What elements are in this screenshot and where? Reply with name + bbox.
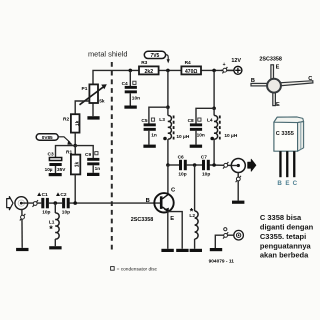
inductor L3	[159, 107, 190, 140]
wire C5 branch	[149, 107, 168, 123]
capacitor C4	[122, 70, 141, 105]
wire node to C9	[75, 146, 93, 158]
wire connector to C1	[21, 202, 41, 204]
solder pin K3	[223, 228, 228, 239]
junction R3/R4 node	[166, 69, 170, 73]
wire R3 to R4	[159, 69, 182, 71]
wire C7 to output connector	[210, 164, 232, 166]
wire K3 to ground	[215, 235, 234, 248]
svg-text:E: E	[170, 216, 174, 222]
ground C5	[143, 145, 155, 148]
solder pin output	[223, 162, 228, 169]
wire collector	[167, 165, 169, 195]
wire output line	[168, 164, 179, 166]
svg-text:+: +	[223, 62, 226, 68]
wire node to C3	[56, 146, 76, 158]
output arrow	[248, 159, 256, 171]
wire C6 to C7	[187, 164, 202, 166]
resistor R1	[66, 150, 81, 175]
capacitor C9	[85, 152, 100, 173]
svg-text:1n: 1n	[151, 132, 157, 138]
svg-text:10p: 10p	[178, 172, 186, 178]
junction L2 node	[193, 163, 197, 167]
wire output shell down	[237, 173, 239, 201]
svg-text:akan berbeda: akan berbeda	[260, 251, 309, 260]
svg-text:C5: C5	[141, 118, 147, 124]
note text block	[260, 213, 314, 260]
svg-text:10 µH: 10 µH	[224, 133, 237, 139]
svg-text:10p: 10p	[202, 172, 210, 178]
capacitor C5	[141, 118, 156, 145]
svg-text:C: C	[171, 188, 176, 194]
svg-text:C7: C7	[201, 154, 207, 160]
capacitor C8	[188, 118, 205, 145]
coax connector K3 bottom	[234, 230, 244, 240]
ground K3	[210, 248, 222, 251]
svg-text:C 3358 bisa: C 3358 bisa	[260, 213, 302, 222]
svg-text:metal shield: metal shield	[88, 50, 127, 59]
metal shield label	[88, 50, 127, 59]
potentiometer P1	[80, 84, 107, 116]
ground input connector	[16, 248, 28, 251]
metal shield dashed line	[111, 62, 113, 250]
wire R2 to node 0V85	[74, 133, 76, 155]
svg-text:R4: R4	[185, 60, 191, 66]
junction C6 collector node	[166, 163, 170, 167]
svg-text:R3: R3	[141, 60, 147, 66]
junction R1 input node	[73, 201, 77, 205]
junction 0V85 node	[73, 144, 77, 148]
ground C4	[124, 106, 136, 109]
svg-text:2k2: 2k2	[144, 69, 153, 75]
svg-text:E: E	[285, 180, 289, 187]
package 2SC3358 top view	[251, 56, 313, 108]
svg-text:B: B	[251, 78, 255, 84]
svg-text:C 3355: C 3355	[276, 131, 294, 137]
svg-text:C1: C1	[42, 192, 48, 198]
resistor R3	[139, 60, 159, 75]
svg-text:C3355. tetapi: C3355. tetapi	[260, 232, 306, 241]
wire R4 to 12V	[201, 69, 234, 71]
svg-text:C: C	[308, 76, 312, 82]
junction 12V tap	[212, 69, 216, 73]
junction C8 node	[212, 107, 216, 111]
svg-text:C2: C2	[60, 192, 66, 198]
transistor T1 2SC3358	[131, 188, 176, 223]
svg-text:E: E	[276, 64, 280, 70]
wire L3 to collector node	[167, 139, 169, 165]
wire L4 to output line	[213, 139, 215, 165]
svg-text:= condensator disc: = condensator disc	[117, 267, 158, 273]
capacitor C2	[56, 192, 70, 215]
input arrow	[7, 197, 13, 210]
svg-text:1k: 1k	[75, 162, 81, 168]
ground L2	[190, 249, 202, 252]
svg-text:10p: 10p	[42, 210, 50, 216]
inductor L2	[189, 165, 198, 249]
svg-text:1k: 1k	[75, 120, 81, 126]
wire emitter right leg	[168, 212, 182, 249]
svg-text:B: B	[146, 198, 150, 204]
svg-text:*: *	[49, 224, 53, 234]
wire C2 to base	[70, 202, 161, 204]
svg-text:C6: C6	[178, 154, 184, 160]
node 0V85 callout	[36, 134, 73, 145]
resistor R4	[181, 60, 201, 75]
svg-text:L4: L4	[207, 117, 213, 123]
svg-text:2SC3358: 2SC3358	[259, 56, 281, 62]
inductor L4	[207, 108, 238, 140]
capacitor C3 electrolytic	[45, 152, 67, 174]
inductor L1	[49, 203, 59, 246]
node 7V5 callout	[144, 51, 170, 63]
svg-text:1n: 1n	[95, 166, 101, 172]
wire R1 to input line	[74, 174, 76, 203]
svg-text:R1: R1	[66, 150, 72, 156]
svg-text:10 µH: 10 µH	[176, 134, 189, 140]
wire C1 to C2	[49, 202, 62, 204]
junction C4 tap	[129, 69, 133, 73]
svg-text:B: B	[277, 180, 282, 187]
ground L1	[49, 246, 61, 249]
wire L4 branch vertical	[213, 70, 215, 108]
wire L3 branch vertical	[167, 70, 169, 107]
wire connector shell down	[21, 210, 23, 248]
junction C5 node	[166, 105, 170, 109]
capacitor C6	[178, 154, 187, 177]
ground C9	[87, 173, 99, 176]
svg-text:470Ω: 470Ω	[185, 69, 197, 75]
capacitor C1	[37, 192, 50, 216]
solder pin output shell	[236, 176, 241, 182]
svg-text:904079 - 11: 904079 - 11	[209, 259, 235, 265]
svg-text:C4: C4	[122, 81, 128, 87]
output coax connector K2	[231, 159, 245, 173]
svg-text:C3: C3	[48, 152, 54, 158]
svg-text:10µ: 10µ	[45, 167, 53, 172]
svg-text:7V5: 7V5	[150, 53, 159, 59]
svg-text:diganti dengan: diganti dengan	[260, 223, 314, 232]
junction L1 node	[54, 201, 58, 205]
svg-text:*: *	[190, 207, 194, 217]
svg-text:12V: 12V	[231, 58, 241, 64]
wire P1 wiper to R2	[75, 101, 89, 114]
input coax connector K1	[15, 197, 28, 210]
ground P1	[87, 116, 99, 119]
ground C8	[190, 145, 202, 148]
svg-text:E: E	[276, 102, 280, 108]
solder pin input shell	[20, 214, 26, 221]
svg-text:C9: C9	[85, 152, 91, 158]
svg-text:R2: R2	[63, 117, 69, 123]
svg-text:35V: 35V	[57, 167, 66, 172]
solder pin input top	[33, 200, 39, 207]
svg-text:L3: L3	[159, 117, 165, 123]
svg-text:10n: 10n	[197, 132, 205, 138]
wire node to R1 top	[74, 146, 76, 155]
power 12V connector	[221, 58, 242, 75]
ground C3	[49, 173, 62, 176]
ground output connector	[232, 201, 244, 204]
ground emitter 2	[176, 249, 188, 252]
svg-text:2SC3358: 2SC3358	[131, 217, 153, 223]
wire supply rail top	[93, 70, 139, 84]
svg-text:P1: P1	[82, 86, 88, 92]
svg-text:penguatannya: penguatannya	[260, 241, 312, 250]
svg-text:5k: 5k	[99, 99, 105, 105]
wire C8 branch	[196, 108, 214, 123]
capacitor C7	[201, 154, 211, 177]
package C3355 TO-92	[274, 117, 304, 187]
junction L4 output node	[212, 163, 216, 167]
svg-text:C8: C8	[188, 118, 194, 124]
svg-text:0V85: 0V85	[42, 135, 53, 140]
svg-text:10n: 10n	[132, 96, 140, 102]
resistor R2	[63, 114, 81, 132]
label 904079-11	[209, 259, 235, 265]
wire emitter down	[167, 211, 169, 248]
svg-text:10p: 10p	[62, 209, 70, 215]
legend condensator disc	[111, 267, 158, 273]
ground emitter 1	[161, 249, 173, 252]
svg-text:C: C	[293, 180, 298, 187]
